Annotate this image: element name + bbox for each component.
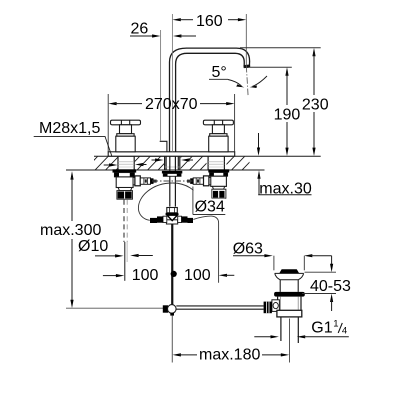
svg-text:270x70: 270x70 bbox=[145, 96, 198, 113]
svg-text:100: 100 bbox=[132, 267, 159, 284]
svg-text:M28x1,5: M28x1,5 bbox=[39, 120, 100, 137]
svg-text:Ø10: Ø10 bbox=[78, 238, 108, 255]
svg-text:Ø34: Ø34 bbox=[195, 199, 225, 216]
svg-text:40-53: 40-53 bbox=[310, 278, 351, 295]
svg-text:160: 160 bbox=[196, 13, 223, 30]
svg-text:Ø63: Ø63 bbox=[233, 240, 263, 257]
svg-text:100: 100 bbox=[184, 267, 211, 284]
svg-text:26: 26 bbox=[131, 21, 149, 38]
svg-text:5°: 5° bbox=[212, 64, 227, 81]
svg-text:230: 230 bbox=[302, 97, 329, 114]
svg-text:1: 1 bbox=[333, 318, 338, 329]
svg-text:max.180: max.180 bbox=[199, 346, 260, 363]
svg-text:max.300: max.300 bbox=[40, 222, 101, 239]
svg-text:4: 4 bbox=[342, 326, 347, 337]
svg-text:G1: G1 bbox=[311, 320, 332, 337]
svg-text:190: 190 bbox=[274, 107, 301, 124]
